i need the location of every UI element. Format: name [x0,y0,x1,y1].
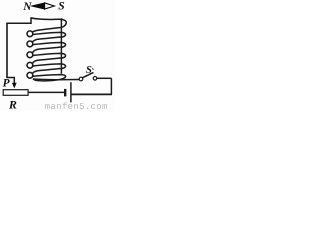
coil L: right edge vertical line [60,18,62,74]
coil L: turn 3 [33,53,66,63]
svg-text:P: P [3,77,10,89]
svg-text:S: S [58,1,64,13]
coil L: turn 5 (bottom, to exit) [33,75,66,81]
tick mark beside switch label [92,68,95,70]
compass needle south half (open) [45,3,55,9]
coil L: small loop 2 [27,41,33,47]
switch S: left contact [79,77,83,81]
svg-text:R: R [8,98,17,111]
wire: switch to right edge [97,77,112,79]
switch S: lever (open) [83,72,94,77]
wire: left vertical riser [6,23,8,78]
svg-text:N: N [22,1,32,13]
switch S: right contact [93,77,97,81]
wire: top lead from left riser to coil [6,17,31,23]
slider arrowhead onto rheostat [12,83,17,89]
battery positive plate (long) [70,82,72,102]
coil L: turn 1 [33,32,66,42]
coil L: turn 2 [33,43,66,53]
battery negative plate (short) [64,89,66,97]
wire: right vertical drop [110,78,112,94]
coil L: small loop 4 [27,62,33,68]
svg-text:S: S [86,65,92,76]
coil L: small loop 5 [27,72,33,78]
rheostat R body [3,90,28,96]
coil L: small loop 3 [27,52,33,58]
wire: coil exit to switch [33,78,79,81]
coil L: top turn from lead-in [31,18,66,32]
wire: bend to rheostat slider [6,78,14,84]
compass needle north half (filled) [31,3,44,9]
svg-text:manfen5.com: manfen5.com [45,102,108,111]
coil L: turn 4 [33,64,66,74]
coil L: small loop 1 [27,31,33,37]
wire: bottom run to battery positive [71,93,112,95]
background [0,0,115,111]
wire: battery negative to rheostat [28,91,64,93]
